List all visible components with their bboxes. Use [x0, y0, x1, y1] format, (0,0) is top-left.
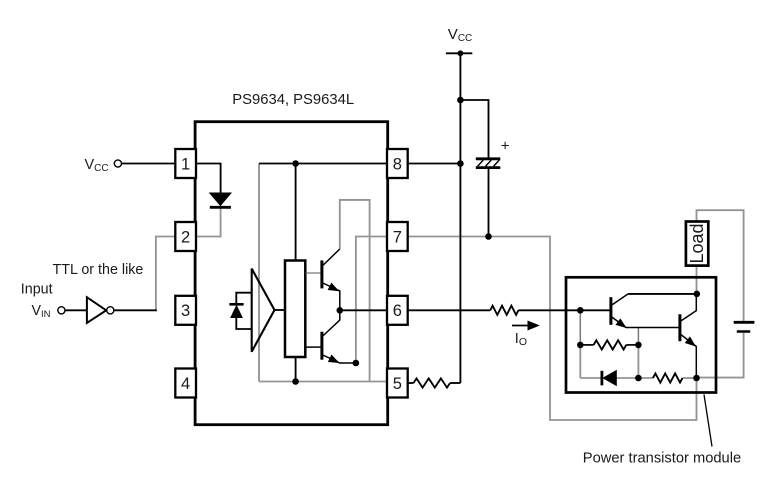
svg-text:3: 3: [181, 302, 190, 320]
svg-text:1: 1: [181, 155, 190, 173]
svg-text:+: +: [501, 138, 510, 155]
svg-text:Input: Input: [21, 282, 53, 298]
svg-text:7: 7: [393, 228, 402, 246]
svg-text:PS9634, PS9634L: PS9634, PS9634L: [232, 92, 354, 108]
svg-text:6: 6: [393, 302, 402, 320]
svg-text:TTL or the like: TTL or the like: [53, 262, 144, 278]
svg-text:Load: Load: [687, 223, 707, 263]
svg-text:8: 8: [393, 155, 402, 173]
svg-text:4: 4: [181, 375, 190, 393]
svg-text:5: 5: [393, 375, 402, 393]
svg-text:2: 2: [181, 228, 190, 246]
svg-text:Power transistor module: Power transistor module: [583, 451, 741, 467]
